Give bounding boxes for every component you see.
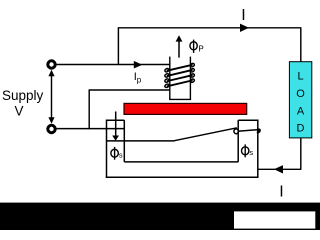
outer left <box>106 120 108 178</box>
terminal top <box>48 61 55 68</box>
end hook <box>257 129 260 132</box>
label phi s right <box>242 144 249 157</box>
core frame <box>106 120 260 178</box>
label phi s left <box>111 147 118 160</box>
label Supply V <box>2 88 44 119</box>
svg-text:A: A <box>297 105 305 117</box>
svg-text:s: s <box>249 148 253 157</box>
inner bottom <box>124 161 238 163</box>
wire to coil lower <box>89 89 170 91</box>
curl loop <box>233 128 239 134</box>
label phi P <box>190 40 197 53</box>
coil core <box>169 57 191 100</box>
inner left <box>123 120 125 162</box>
junction vertical wire <box>117 28 119 65</box>
outer right <box>257 120 259 178</box>
svg-text:s: s <box>119 150 123 159</box>
secondary diagonal <box>174 128 237 141</box>
flux arrow down left leg <box>115 112 117 137</box>
svg-text:I: I <box>279 184 283 201</box>
wire top horizontal <box>118 27 302 29</box>
outer bottom <box>106 176 259 178</box>
flux arrow up <box>178 41 180 58</box>
wire bottom terminal <box>56 128 124 130</box>
svg-text:P: P <box>198 44 203 53</box>
arrowhead I bottom <box>274 165 283 173</box>
svg-text:O: O <box>296 88 305 100</box>
left leg top <box>107 119 125 121</box>
svg-text:Supply: Supply <box>2 88 44 103</box>
diagonal across leg <box>238 130 258 132</box>
svg-text:V: V <box>15 104 24 119</box>
wire load bottom <box>300 138 302 169</box>
load text <box>296 71 305 135</box>
load box <box>289 62 311 138</box>
white notch <box>234 211 315 228</box>
mid horizontal <box>107 140 175 142</box>
wire bottom horizontal <box>258 168 302 170</box>
svg-text:I: I <box>241 7 245 24</box>
arrowhead I top <box>240 24 249 32</box>
svg-text:L: L <box>297 71 303 83</box>
junction vertical <box>88 90 90 129</box>
terminal bottom <box>48 125 55 132</box>
wire top terminal to coil <box>56 64 170 66</box>
supply double arrow <box>48 70 54 124</box>
right leg top <box>238 119 258 121</box>
wire down to load <box>300 28 302 62</box>
black banner <box>0 203 320 230</box>
red bar workpiece <box>124 103 247 114</box>
arrowhead Ip <box>134 61 143 69</box>
coil winding L1 <box>164 63 195 88</box>
inner right <box>237 120 239 162</box>
svg-text:D: D <box>297 123 305 135</box>
